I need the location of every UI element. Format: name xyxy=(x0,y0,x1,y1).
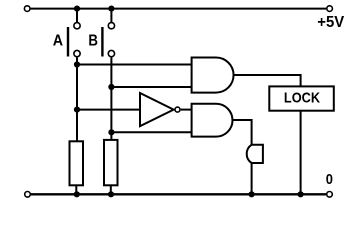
wire R1 to bottom rail xyxy=(75,185,77,194)
junction bottom rail / R2 xyxy=(108,191,114,197)
wire switch B bottom column xyxy=(110,57,112,139)
wire bottom rail 0V xyxy=(31,193,326,195)
wire LOCK to bottom rail xyxy=(300,111,302,195)
inverter U2 output bubble xyxy=(175,107,180,112)
LOCK box xyxy=(269,86,334,110)
junction bottom rail / LOCK xyxy=(298,191,304,197)
wire inverter output to AND2 input 1 xyxy=(181,109,192,111)
junction bottom rail / R1 xyxy=(74,191,80,197)
wire AND2 output to buzzer xyxy=(233,120,252,145)
terminal top-left xyxy=(24,6,30,12)
junction bottom rail / buzzer xyxy=(249,191,255,197)
svg-text:0: 0 xyxy=(326,172,333,188)
resistor R1 xyxy=(70,141,84,185)
AND gate U1 xyxy=(192,58,234,93)
switch B actuator bar xyxy=(101,27,103,57)
junction node A / inverter in xyxy=(74,107,80,113)
wire node A to AND1 input 1 xyxy=(77,64,192,66)
switch A bottom contact xyxy=(74,50,80,56)
wire switch A top stub xyxy=(76,9,78,22)
junction top rail / switch A xyxy=(74,6,80,12)
switch B top contact xyxy=(108,23,114,29)
wire top rail +5V xyxy=(31,8,327,10)
junction node B / AND1 in2 xyxy=(108,84,114,90)
resistor R2 xyxy=(104,140,118,185)
inverter U2 triangle xyxy=(140,93,174,126)
wire AND1 output to LOCK xyxy=(234,75,301,86)
svg-text:LOCK: LOCK xyxy=(284,89,320,106)
terminal bottom-left xyxy=(25,192,31,198)
switch B bottom contact xyxy=(108,50,114,56)
AND gate U3 xyxy=(192,104,233,137)
wire node B to AND2 input 2 xyxy=(111,131,191,133)
switch A actuator bar xyxy=(67,27,69,57)
wire node B to AND1 input 2 xyxy=(111,86,191,88)
svg-text:B: B xyxy=(88,33,98,50)
junction top rail / switch B xyxy=(108,6,114,12)
buzzer BZ1 xyxy=(247,145,263,163)
junction node A / AND1 in1 xyxy=(74,61,80,67)
svg-text:A: A xyxy=(53,33,63,50)
svg-text:+5V: +5V xyxy=(317,14,344,31)
junction node B / AND2 in2 xyxy=(108,129,114,135)
wire switch B top stub xyxy=(110,9,112,22)
terminal top-right +5V xyxy=(327,6,333,12)
wire node A to inverter input xyxy=(77,109,140,111)
terminal bottom-right 0V xyxy=(327,192,333,198)
switch A top contact xyxy=(74,23,80,29)
wire buzzer to bottom rail xyxy=(251,163,253,194)
wire switch A bottom to junction xyxy=(76,57,78,141)
wire R2 to bottom rail xyxy=(110,185,112,194)
